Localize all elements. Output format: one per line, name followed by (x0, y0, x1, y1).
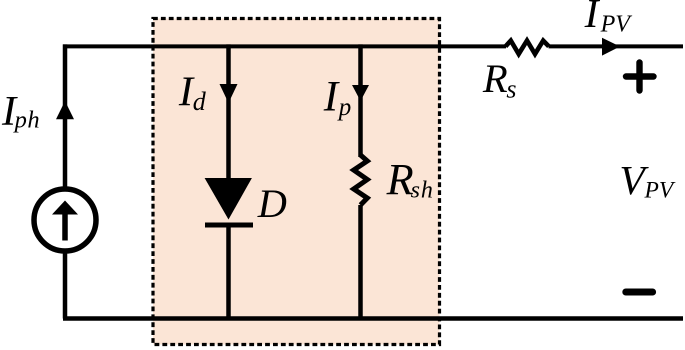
svg-text:PV: PV (600, 11, 633, 37)
arrowhead Ip (down) (352, 85, 369, 101)
diode D triangle (205, 178, 252, 220)
svg-text:d: d (193, 87, 207, 116)
wire: diode branch lower (226, 225, 231, 319)
svg-text:s: s (506, 74, 516, 103)
plus terminal (626, 73, 654, 79)
resistor Rs horizontal zigzag (506, 41, 549, 54)
arrowhead Id (down) (220, 84, 238, 103)
svg-text:I: I (584, 0, 601, 36)
resistor Rsh vertical zigzag (354, 155, 368, 205)
PV cell dashed boundary box (153, 19, 440, 345)
wire: shunt branch lower (358, 205, 363, 319)
minus terminal (626, 289, 653, 296)
svg-text:ph: ph (13, 107, 40, 134)
current source Iph circle (34, 189, 96, 251)
svg-text:PV: PV (644, 178, 676, 204)
wire: top bus left segment (63, 44, 506, 48)
svg-text:D: D (257, 181, 287, 226)
svg-text:sh: sh (411, 178, 434, 204)
wire: bottom return bus (63, 316, 683, 321)
arrowhead IPV (right) (602, 38, 620, 56)
arrowhead Iph (up) (56, 101, 74, 119)
diode D cathode bar (205, 223, 253, 228)
wire: left branch lower (63, 251, 68, 319)
wire: left branch upper (63, 44, 68, 189)
current source arrow (62, 212, 68, 241)
svg-text:I: I (323, 74, 340, 121)
wire: shunt branch upper (358, 44, 363, 157)
svg-text:R: R (386, 155, 414, 204)
wire: diode branch upper (226, 44, 231, 181)
wire: top bus right segment after Rs (549, 44, 684, 48)
svg-text:p: p (337, 94, 352, 121)
svg-text:R: R (482, 56, 508, 101)
